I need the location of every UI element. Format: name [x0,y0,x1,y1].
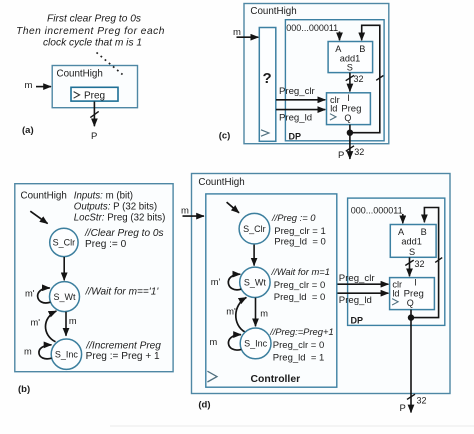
wire Preg_clr (d) [338,283,389,285]
dotted leader line from note to block (a) [97,53,123,75]
wire m S_Wt to S_Inc (d) [255,298,257,327]
declarations text (b) [74,190,166,223]
bus slash 32 on S wire (d) [405,260,413,265]
svg-text:clock cycle that m is 1: clock cycle that m is 1 [43,37,142,48]
svg-text:DP: DP [351,316,364,326]
svg-text:Q: Q [344,113,351,123]
svg-text://Clear Preg to 0s: //Clear Preg to 0s [84,228,164,239]
svg-text:DP: DP [289,132,302,142]
svg-text:Preg_clr = 0: Preg_clr = 0 [273,340,325,351]
svg-text:32: 32 [415,259,425,269]
svg-text:A: A [335,44,342,54]
clock triangle of controller (d) [207,371,217,382]
wire m S_Wt to S_Inc (b) [65,312,67,336]
svg-text:m: m [210,337,218,347]
block CountHigh (a) [52,66,137,108]
svg-text:32: 32 [354,147,364,157]
adder add1 (c) [328,42,373,73]
svg-text:m': m' [25,289,35,299]
wire Preg_clr (c) [276,99,325,101]
block CountHigh (b) [15,184,173,372]
svg-text:m: m [25,80,33,91]
wire S_Clr to S_Wt (d) [253,245,255,266]
self-loop m' on S_Wt (b) [38,288,51,303]
adder add1 (d) [390,225,436,258]
svg-text:Q: Q [407,298,414,308]
svg-text:(b): (b) [18,384,30,395]
wire m input (c) [237,36,259,38]
wire constant to A (c) [339,32,341,41]
wire m' S_Inc to S_Wt (d) [236,297,247,332]
svg-text:CountHigh: CountHigh [198,177,244,188]
svg-text:S: S [347,63,353,73]
svg-text://Preg := 0: //Preg := 0 [271,212,316,223]
wire S_Clr to S_Wt (b) [63,257,65,280]
svg-text:S_Clr: S_Clr [53,238,76,248]
feedback wire Q to B (d) [411,208,439,318]
note: behavior description text (a) [16,13,165,48]
svg-text:000...000011: 000...000011 [286,23,338,33]
bus slash 32 on S wire (c) [346,75,354,80]
datapath box DP (c) [285,20,384,141]
svg-text:Preg_ld: Preg_ld [339,295,372,306]
wire m input (d) [183,215,205,217]
feedback wire Q to B (c) [350,25,380,132]
svg-text:Outputs: P (32 bits): Outputs: P (32 bits) [74,201,157,212]
svg-text:S_Clr: S_Clr [243,224,266,234]
initial transition arrow (d) [227,202,239,213]
svg-text:P: P [400,403,406,414]
wire constant to A (d) [402,214,404,223]
svg-text:m': m' [211,277,221,287]
state S_Inc (b) [51,339,81,369]
state S_Wt (b) [50,282,80,312]
svg-text:32: 32 [417,396,427,406]
svg-text:m: m [24,346,32,356]
controller box (d) [206,194,337,387]
wire m' S_Inc to S_Wt (b) [45,311,56,342]
svg-text:S: S [409,247,415,257]
wire m input (a) [36,86,51,88]
svg-text:B: B [421,227,427,237]
initial transition arrow (b) [30,211,47,223]
svg-text:Preg_ld = 1: Preg_ld = 1 [273,353,325,364]
svg-text:000...000011: 000...000011 [351,206,403,216]
svg-text:ld: ld [392,288,399,298]
state S_Wt (d) [240,267,270,297]
self-loop m on S_Inc (d) [228,335,241,350]
svg-text:A: A [398,227,405,237]
junction node Q (d) [408,314,414,320]
clock triangle of Preg (d) [392,299,398,305]
svg-text:Controller: Controller [251,374,301,385]
svg-text:B: B [359,44,365,54]
svg-text:m': m' [31,317,41,327]
wire P output (a) [93,102,95,127]
state S_Clr (b) [50,228,78,256]
register Preg (c) [327,93,371,125]
register Preg (d) [390,278,435,310]
svg-text:m': m' [226,307,236,317]
svg-text:Then increment Preg for each: Then increment Preg for each [16,26,165,37]
svg-text:Preg_clr = 0: Preg_clr = 0 [274,280,326,291]
state S_Clr (d) [239,213,270,244]
junction node Q (c) [347,130,353,136]
register Preg (a) [71,87,118,101]
clock triangle of Preg (c) [330,114,336,120]
state S_Inc (d) [240,328,271,359]
svg-text:(a): (a) [22,125,34,136]
self-loop m on S_Inc (b) [39,345,52,359]
bus slash P (c) [346,146,354,151]
svg-text:I: I [347,93,350,103]
svg-text:Preg_clr = 1: Preg_clr = 1 [274,226,326,237]
svg-text://Preg:=Preg+1: //Preg:=Preg+1 [269,326,334,337]
bus slash on feedback wire (d) [435,258,442,263]
datapath box DP (d) [348,198,445,325]
svg-text:ld: ld [330,104,337,114]
svg-text:I: I [414,278,417,288]
svg-text:P: P [91,131,97,142]
svg-text:m: m [181,206,189,217]
svg-text:Preg_clr: Preg_clr [339,273,376,284]
bus slash P (d) [407,394,415,399]
wire S to Preg I (c) [349,73,351,92]
svg-text://Wait for m=1: //Wait for m=1 [271,266,330,277]
svg-text:Preg_clr: Preg_clr [279,86,316,97]
svg-text:P: P [338,150,344,161]
svg-text:First clear Preg to 0s: First clear Preg to 0s [47,13,141,24]
svg-text:m: m [233,27,241,38]
svg-text:Preg := Preg + 1: Preg := Preg + 1 [86,351,160,362]
svg-text:?: ? [263,70,272,87]
wire Preg_ld (c) [276,109,325,111]
svg-text:Preg: Preg [84,91,105,102]
block CountHigh (d) [192,174,451,394]
svg-text:Preg_ld = 0: Preg_ld = 0 [274,292,326,303]
svg-text:(c): (c) [219,131,231,142]
controller placeholder box ? (c) [259,28,276,142]
svg-text:S_Inc: S_Inc [55,349,79,359]
wire Preg_ld (d) [338,292,389,294]
svg-text:CountHigh: CountHigh [21,190,67,201]
svg-text:Preg_ld = 0: Preg_ld = 0 [274,236,326,247]
svg-text:m: m [260,308,268,318]
svg-text:Preg := 0: Preg := 0 [85,239,127,250]
svg-text:add1: add1 [401,237,421,247]
faint page rule at bottom [110,425,474,427]
clock triangle of ? box (c) [261,130,269,136]
svg-text:CountHigh: CountHigh [57,69,103,80]
svg-text:m: m [69,316,77,326]
wire Q output down (c) [349,125,351,159]
svg-text:Preg_ld: Preg_ld [279,112,312,123]
svg-text:(d): (d) [198,400,210,411]
bus slash on feedback wire (c) [376,76,383,81]
svg-text:S_Wt: S_Wt [244,278,267,288]
wire Q output down (d) [410,310,412,413]
block CountHigh (c) [244,4,389,144]
svg-text:LocStr: Preg (32 bits): LocStr: Preg (32 bits) [74,212,166,223]
svg-text:S_Inc: S_Inc [244,339,268,349]
svg-text:32: 32 [354,74,364,84]
bus slash P (a) [90,111,98,117]
wire S to Preg I (d) [409,257,411,276]
svg-text://Wait for m=='1': //Wait for m=='1' [85,287,160,298]
svg-text:Inputs: m (bit): Inputs: m (bit) [74,190,133,201]
svg-text:CountHigh: CountHigh [250,6,296,17]
svg-text:S_Wt: S_Wt [53,292,76,302]
clock triangle of Preg (a) [74,92,80,99]
self-loop m' on S_Wt (d) [228,274,241,290]
